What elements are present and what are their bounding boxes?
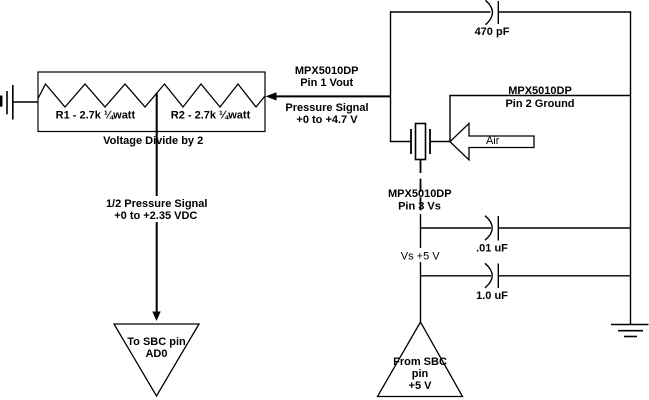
wire cap1 row right — [499, 227, 631, 229]
capacitor C2 .01 uF — [485, 216, 498, 241]
wire cap2 row left — [420, 275, 491, 277]
label 470 pF — [475, 26, 510, 38]
wire cap2 row right — [499, 275, 631, 277]
transducer sensor MPX5010DP — [411, 124, 430, 160]
label 1.0 uF — [476, 290, 508, 302]
wire pin2 ground down — [450, 96, 631, 142]
label 1/2 Pressure Signal — [106, 196, 208, 222]
label voltage divide by 2 — [103, 135, 203, 147]
svg-text:AD0: AD0 — [145, 348, 167, 360]
svg-text:.01 uF: .01 uF — [476, 242, 508, 254]
wire top horizontal left segment — [390, 11, 491, 13]
wire arrow pin1 vout to box — [266, 92, 391, 100]
terminal triangle From SBC pin +5 V — [378, 322, 463, 397]
svg-text:Vs +5 V: Vs +5 V — [401, 251, 440, 263]
svg-text:Pin 3 Vs: Pin 3 Vs — [398, 200, 441, 212]
wire pin3 dashed — [420, 160, 422, 214]
svg-text:Voltage Divide by 2: Voltage Divide by 2 — [103, 135, 203, 147]
svg-text:Pin 2 Ground: Pin 2 Ground — [505, 98, 574, 110]
svg-text:470 pF: 470 pF — [475, 26, 510, 38]
label .01 uF — [476, 242, 508, 254]
resistor R1 and R2 zigzag — [38, 84, 265, 107]
label From SBC pin +5 V — [393, 356, 447, 392]
terminal triangle To SBC pin AD0 — [114, 324, 199, 396]
svg-text:From SBC: From SBC — [393, 356, 447, 368]
wire tap arrow down — [152, 222, 160, 321]
svg-text:+0 to +2.35 VDC: +0 to +2.35 VDC — [114, 210, 197, 222]
svg-text:R2 - 2.7k ¼watt: R2 - 2.7k ¼watt — [171, 110, 251, 122]
svg-text:MPX5010DP: MPX5010DP — [295, 65, 359, 77]
wire sensor to air junction — [430, 141, 450, 143]
wire half pressure signal tap — [156, 93, 158, 196]
svg-text:pin: pin — [412, 368, 429, 380]
wire left vertical — [391, 11, 412, 141]
svg-text:Air: Air — [486, 135, 500, 147]
svg-text:R1 - 2.7k ¼watt: R1 - 2.7k ¼watt — [56, 110, 136, 122]
wire right vertical — [630, 11, 632, 324]
label MPX5010DP Pin 2 Ground — [505, 85, 574, 110]
capacitor C3 1.0 uF — [485, 263, 498, 288]
label MPX5010DP Pin 3 Vs — [388, 188, 452, 212]
svg-text:To SBC pin: To SBC pin — [127, 336, 186, 348]
wire pin3 vertical — [420, 214, 422, 322]
wire top horizontal right segment — [499, 11, 631, 13]
air arrow — [450, 123, 534, 159]
ground left — [1, 85, 13, 120]
label Air — [486, 135, 500, 147]
label R2 value — [171, 110, 251, 122]
ground right — [611, 325, 649, 337]
svg-text:MPX5010DP: MPX5010DP — [388, 188, 452, 200]
svg-text:+5 V: +5 V — [409, 380, 433, 392]
label R1 value — [56, 110, 136, 122]
svg-text:1/2 Pressure Signal: 1/2 Pressure Signal — [106, 198, 208, 210]
svg-text:Pressure Signal: Pressure Signal — [285, 102, 368, 114]
label Vs +5 V — [399, 248, 442, 263]
label Pressure Signal — [285, 102, 368, 126]
wire cap1 row left — [420, 227, 491, 229]
svg-text:MPX5010DP: MPX5010DP — [508, 85, 572, 97]
resistor box outline — [38, 72, 265, 132]
wire ground to box — [13, 101, 38, 103]
svg-text:1.0 uF: 1.0 uF — [476, 290, 508, 302]
label MPX5010DP Pin 1 Vout — [295, 65, 359, 89]
svg-text:+0 to +4.7 V: +0 to +4.7 V — [296, 114, 358, 126]
label To SBC pin AD0 — [127, 336, 186, 360]
capacitor C1 470 pF — [486, 0, 499, 24]
svg-text:Pin 1 Vout: Pin 1 Vout — [300, 77, 353, 89]
